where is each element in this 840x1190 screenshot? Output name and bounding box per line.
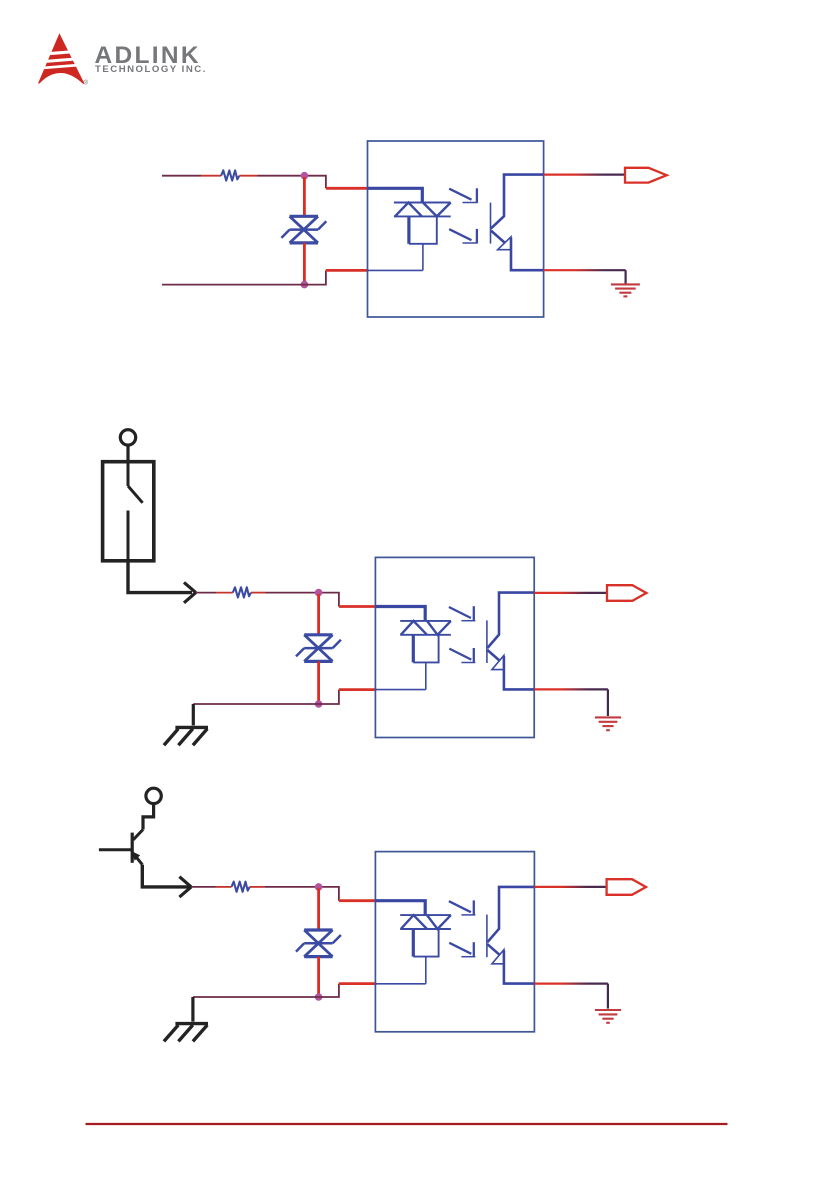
wire C2 red thick into box top: [339, 605, 376, 608]
switch S1 terminal circle: [120, 430, 135, 445]
wire U1 emitter out: [511, 238, 544, 271]
phototransistor U3 collector: [487, 887, 534, 942]
wire C3 chassis drop: [191, 997, 194, 1022]
wire U3 inside bottom: [375, 983, 425, 985]
node C2 junction bottom: [315, 700, 323, 708]
LED U3 right triangle: [427, 915, 451, 929]
wire C1 top to junction: [258, 175, 305, 177]
wire U3 emitter out: [504, 950, 535, 983]
phototransistor U2 collector: [487, 593, 534, 648]
phototransistor U3 emitter arrowhead: [492, 950, 504, 964]
wire C3 top elbow into box: [319, 887, 339, 901]
LED U3 return square: [412, 929, 415, 957]
LED U1 return square: [407, 216, 410, 243]
wire Q1 collector lead: [143, 804, 154, 830]
resistor R3: [232, 882, 250, 892]
wire U3 LED anode (thick): [375, 901, 425, 915]
light arrow U2 upper: [449, 606, 476, 621]
phototransistor U2 emitter: [487, 650, 500, 661]
opto-isolator U1 box: [368, 141, 544, 317]
LED U1 bottom bar: [394, 215, 451, 217]
wire C2 bottom elbow into box: [319, 690, 339, 704]
ground C3 earth symbol: [595, 1010, 621, 1023]
LED U3 bottom bar: [400, 928, 451, 930]
LED U2 return square: [412, 635, 415, 663]
wire C3 output bottom: [534, 982, 608, 984]
LED U3 top bar: [400, 914, 451, 916]
light arrow U2 lower: [449, 648, 475, 663]
wire U3 LED cathode down: [425, 957, 427, 984]
wire C1 red lead right of R1: [239, 175, 257, 177]
phototransistor U2 base bar: [486, 620, 488, 663]
wire C3 red vertical TVS to bottom junction: [317, 957, 320, 995]
switch S1 contact lever: [128, 462, 143, 561]
transistor Q1 emitter: [132, 852, 142, 864]
phototransistor U1 base bar: [490, 203, 492, 244]
wire C3 bottom from chassis ground: [193, 996, 319, 998]
node C2 junction top: [315, 589, 323, 597]
LED U3 left triangle: [401, 915, 427, 929]
wire C1 output bottom: [544, 269, 626, 271]
svg-text:®: ®: [84, 80, 89, 87]
ground chassis C2: [164, 727, 208, 745]
node C1 junction top: [301, 172, 309, 180]
transistor Q1 base bar: [131, 833, 134, 863]
node C1 junction bottom: [301, 281, 309, 289]
wire U2 emitter out: [504, 656, 534, 689]
wire U2 LED anode (thick): [375, 607, 425, 621]
wire C1 ground drop: [624, 270, 626, 283]
phototransistor U1 emitter arrowhead: [498, 237, 511, 250]
LED U2 left triangle: [401, 621, 427, 635]
wire C2 bottom from chassis ground: [193, 703, 318, 705]
wire C3 red lead left of R3: [216, 886, 232, 888]
output connector C2 flag: [607, 585, 646, 601]
wire C1 red lead left of R1: [201, 175, 221, 177]
transistor Q1 collector diagonal: [133, 830, 143, 840]
LED U1 right triangle: [423, 203, 451, 217]
phototransistor U1 emitter: [491, 231, 505, 243]
output connector C3 flag: [607, 879, 646, 895]
wire C1 red vertical TVS to bottom junction: [303, 243, 306, 283]
wire C1 top elbow into box: [304, 176, 326, 189]
wire C1 red thick into box top: [326, 187, 369, 190]
wire C2 red vertical TVS to bottom junction: [317, 661, 320, 702]
wire C1 bottom elbow into box: [304, 270, 326, 284]
output connector C1 flag: [625, 168, 667, 183]
wire C3 ground drop: [607, 984, 609, 1009]
wire C1 red vertical to TVS: [303, 177, 306, 216]
svg-text:TECHNOLOGY INC.: TECHNOLOGY INC.: [95, 64, 207, 75]
light arrow U1 upper: [449, 188, 478, 202]
TVS diode D1 (bidirectional suppressor): [281, 216, 326, 243]
wire U2 LED cathode down: [425, 662, 427, 689]
wire U1 LED anode (thick): [368, 188, 423, 202]
transistor Q1 terminal circle: [146, 788, 161, 803]
footer rule: [86, 1123, 728, 1125]
wire U1 inside bottom: [368, 269, 423, 271]
resistor R2: [233, 587, 251, 597]
wire C2 to junction: [266, 592, 319, 594]
ground C1 earth symbol: [611, 284, 640, 296]
wire C3 red thick into box top: [339, 899, 376, 902]
transistor Q1 base lead: [99, 848, 132, 851]
LED U1 left triangle: [395, 203, 422, 217]
TVS diode D3 (bidirectional suppressor): [296, 930, 341, 957]
LED U1 top bar: [394, 202, 451, 204]
wire U2 inside bottom: [375, 689, 425, 691]
wire C1 input bottom: [162, 284, 304, 286]
switch S1 body: [103, 462, 154, 561]
phototransistor U1 collector: [491, 175, 544, 229]
wire C2 red vertical to TVS: [317, 594, 320, 635]
TVS diode D2 (bidirectional suppressor): [296, 635, 341, 662]
wire C2 red lead left of R2: [216, 592, 233, 594]
wire C3 red thick into box bottom: [339, 982, 376, 985]
wire C3 to junction: [264, 886, 318, 888]
wire C3 output top: [534, 886, 606, 888]
LED U2 top bar: [400, 620, 451, 622]
wire C3 bottom elbow into box: [319, 984, 339, 997]
node C3 junction bottom: [315, 993, 323, 1001]
light arrow U1 lower: [449, 229, 478, 243]
phototransistor U3 base bar: [486, 915, 488, 958]
phototransistor U2 emitter arrowhead: [492, 655, 504, 669]
node C3 junction top: [315, 883, 323, 891]
wire C1 output top: [544, 174, 625, 176]
wire C2 red lead right of R2: [251, 592, 266, 594]
wire C3 red lead right of R3: [250, 886, 265, 888]
wire Q1 emitter lead: [142, 865, 190, 887]
wire C3 input to R3: [192, 886, 216, 888]
opto-isolator U2 box: [375, 557, 534, 737]
wire C1 red thick into box bottom: [326, 269, 369, 272]
wire C2 red thick into box bottom: [339, 688, 376, 691]
wire C2 output top: [534, 592, 607, 594]
wire S1 output lead: [128, 561, 192, 593]
wire U1 LED cathode down: [422, 244, 424, 271]
wire S1 terminal to box: [126, 445, 129, 462]
ground chassis C3: [164, 1024, 208, 1042]
wire C2 output bottom: [534, 688, 608, 690]
transistor Q1 emitter arrowhead: [132, 851, 140, 860]
ADLINK logo red triangle: [33, 33, 89, 84]
wire C2 input to R2: [196, 592, 216, 594]
wire C2 chassis drop: [192, 704, 195, 725]
arrow C3 input black arrowhead: [179, 877, 191, 897]
light arrow U3 upper: [449, 900, 476, 915]
resistor R1: [221, 170, 239, 180]
LED U2 bottom bar: [400, 634, 451, 636]
wire C1 input top: [162, 175, 201, 177]
opto-isolator U3 box: [375, 852, 534, 1032]
ground C2 earth symbol: [595, 717, 621, 730]
wire C2 top elbow into box: [319, 593, 339, 607]
phototransistor U3 emitter: [487, 944, 500, 955]
wire C2 ground drop: [607, 689, 609, 716]
arrow C2 input black arrowhead: [184, 582, 196, 602]
light arrow U3 lower: [449, 942, 475, 957]
wire C3 red vertical to TVS: [317, 888, 320, 930]
LED U2 right triangle: [427, 621, 451, 635]
